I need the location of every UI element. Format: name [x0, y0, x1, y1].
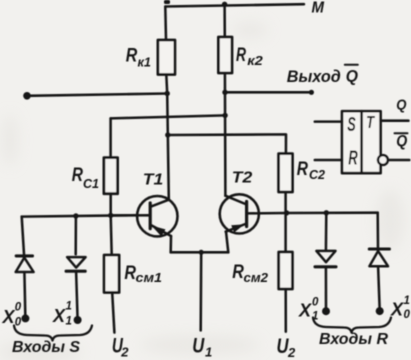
svg-text:0: 0 [15, 302, 22, 314]
svg-text:2: 2 [287, 345, 296, 360]
svg-text:2: 2 [120, 345, 129, 360]
svg-text:Входы R: Входы R [319, 331, 388, 348]
svg-text:1: 1 [66, 301, 72, 313]
svg-text:1: 1 [205, 345, 212, 360]
svg-text:X: X [390, 299, 404, 319]
svg-text:Q: Q [396, 97, 406, 114]
svg-text:см2: см2 [244, 271, 269, 285]
svg-text:S: S [347, 114, 356, 136]
svg-text:см1: см1 [136, 271, 163, 285]
svg-text:к1: к1 [138, 55, 152, 69]
svg-text:Т1: Т1 [143, 171, 164, 188]
svg-text:X: X [298, 301, 312, 321]
svg-text:U: U [192, 334, 205, 357]
svg-text:R: R [297, 159, 308, 180]
svg-text:1: 1 [312, 310, 318, 322]
svg-text:Q: Q [346, 68, 358, 86]
svg-text:R: R [348, 147, 358, 169]
svg-text:R: R [236, 45, 246, 66]
svg-text:C2: C2 [309, 168, 325, 182]
svg-text:M: M [312, 0, 325, 16]
svg-text:X: X [52, 306, 66, 326]
svg-text:R: R [72, 165, 83, 186]
svg-text:0: 0 [15, 317, 22, 329]
svg-text:R: R [126, 45, 138, 66]
svg-text:0: 0 [312, 296, 319, 308]
svg-text:T: T [366, 112, 375, 132]
svg-text:C1: C1 [83, 177, 99, 191]
svg-text:1: 1 [66, 315, 72, 327]
svg-text:Q: Q [396, 133, 407, 150]
svg-text:0: 0 [404, 309, 411, 321]
svg-text:к2: к2 [247, 54, 263, 68]
svg-text:Выход: Выход [287, 67, 341, 86]
svg-text:R: R [232, 262, 244, 283]
svg-text:R: R [124, 263, 136, 284]
svg-text:Т2: Т2 [232, 169, 253, 186]
svg-text:Входы S: Входы S [12, 339, 80, 356]
svg-text:1: 1 [404, 295, 410, 307]
svg-text:X: X [2, 307, 16, 327]
